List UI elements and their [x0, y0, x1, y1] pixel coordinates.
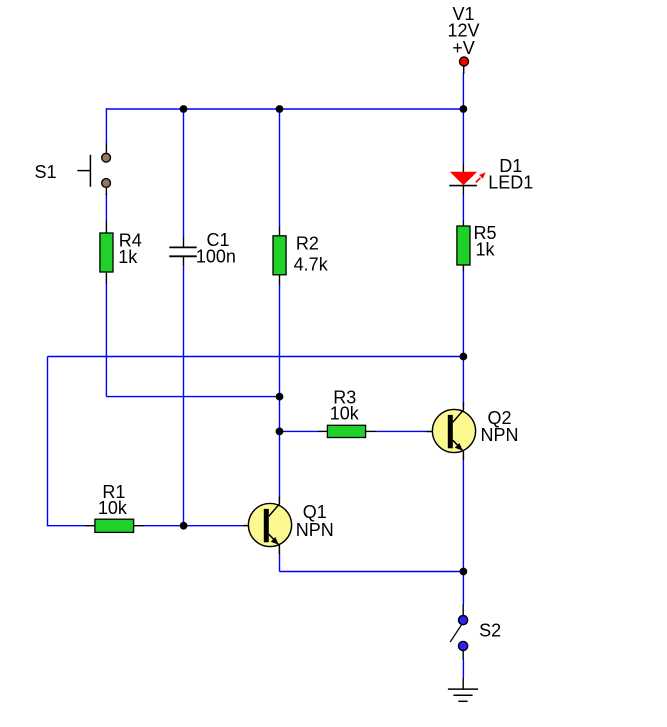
svg-text:+V: +V [452, 38, 475, 58]
label R3 10k [330, 388, 360, 424]
wire feedback row [48, 356, 464, 358]
label D1 LED1 [488, 156, 533, 193]
node junction top C1 [180, 105, 188, 113]
node junction top V1 [460, 105, 468, 113]
wire S1 to R4 [105, 194, 107, 223]
transistor Q1 NPN [243, 497, 291, 555]
switch S2 [450, 604, 468, 660]
resistor R2 [273, 227, 286, 284]
wire node to Q2 collector [462, 357, 464, 405]
power terminal V1 +V [460, 57, 469, 74]
svg-text:4.7k: 4.7k [294, 254, 329, 274]
label R5 1k [473, 223, 496, 260]
wire row R4 corner to R2 column [106, 396, 279, 398]
label C1 100n [196, 230, 236, 267]
wire R3 to Q2 base [375, 430, 427, 432]
wire top rail [106, 108, 463, 110]
label Q1 NPN [296, 502, 334, 540]
node junction C1/R1 row [180, 522, 188, 530]
resistor R3 [318, 425, 376, 437]
resistor R4 [100, 221, 113, 283]
node junction R5/Q2/feedback [460, 353, 468, 361]
label R2 4.7k [294, 234, 329, 275]
label V1 value [447, 4, 479, 58]
wire S2 to ground [462, 660, 464, 679]
wire V1 to top rail [462, 73, 464, 109]
wire R2 column top [279, 109, 281, 228]
node junction top R2 [276, 105, 284, 113]
svg-text:1k: 1k [475, 240, 495, 260]
wire bottom row [280, 571, 464, 573]
wire Q2 emitter to S2 [462, 459, 464, 605]
wire C1 column top [183, 109, 185, 238]
svg-text:LED1: LED1 [488, 173, 533, 193]
label R4 1k [118, 231, 142, 267]
wire top rail to LED [462, 109, 464, 164]
svg-text:1k: 1k [118, 247, 138, 267]
svg-text:10k: 10k [98, 498, 128, 518]
transistor Q2 NPN [427, 403, 476, 461]
svg-text:S2: S2 [479, 620, 501, 640]
label Q2 NPN [480, 408, 518, 445]
node junction R4 row [276, 393, 284, 401]
wire feedback to R1 [47, 525, 86, 527]
LED D1 [449, 164, 485, 195]
svg-text:100n: 100n [196, 247, 236, 267]
wire feedback column [47, 357, 49, 526]
resistor R1 [85, 519, 143, 532]
wire R4 down to corner [105, 283, 107, 397]
capacitor C1 [169, 237, 196, 264]
wire LED to R5 [462, 194, 464, 222]
svg-text:S1: S1 [34, 162, 56, 182]
wire Q1 emitter down [279, 553, 281, 572]
wire R2 column bottom to Q1 collector [279, 284, 281, 498]
ground [448, 678, 478, 702]
label R1 10k [98, 482, 128, 518]
node junction bottom row [460, 568, 468, 576]
wire R3 row left [280, 430, 319, 432]
svg-text:10k: 10k [330, 404, 360, 424]
resistor R5 [457, 221, 470, 271]
wire R1 to Q1 base [143, 525, 244, 527]
svg-text:NPN: NPN [296, 520, 334, 540]
switch S1 (push button) [77, 144, 110, 196]
node junction R3 row [276, 428, 284, 436]
wire R5 to node [462, 270, 464, 357]
wire C1 column bottom [183, 264, 185, 526]
wire S1 column top [105, 108, 107, 144]
svg-text:R2: R2 [296, 234, 319, 254]
svg-text:NPN: NPN [480, 425, 518, 445]
